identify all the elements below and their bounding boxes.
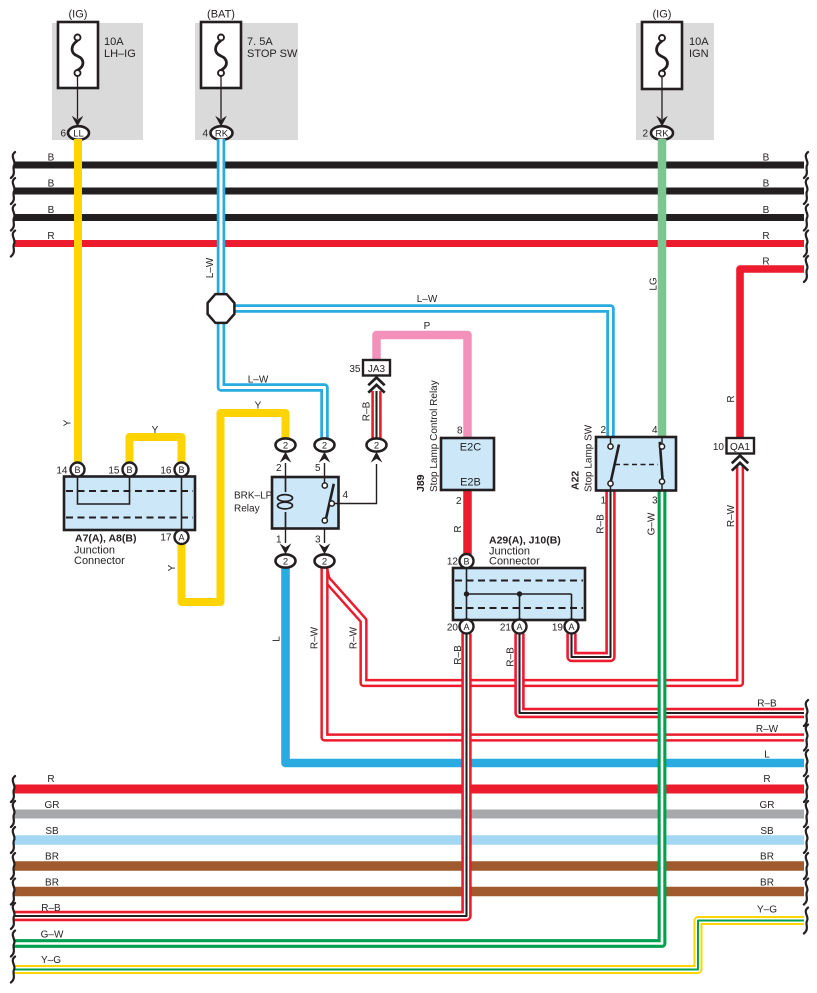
svg-text:2: 2 bbox=[283, 440, 288, 451]
svg-text:B: B bbox=[763, 179, 770, 190]
wire L from BRK-LP relay to right bus bbox=[272, 568, 809, 776]
svg-text:B: B bbox=[763, 205, 770, 216]
svg-text:Y–G: Y–G bbox=[757, 905, 777, 916]
svg-text:2: 2 bbox=[456, 496, 462, 507]
svg-text:10A: 10A bbox=[104, 36, 124, 48]
svg-text:R: R bbox=[762, 257, 769, 268]
wire BR bus 1 bbox=[11, 852, 808, 880]
wire Y from A7 pin 17 to BRK-LP relay terminal bbox=[167, 401, 286, 603]
svg-text:2: 2 bbox=[374, 440, 379, 451]
svg-text:B: B bbox=[48, 153, 55, 164]
switch A22 Stop Lamp SW bbox=[570, 424, 677, 506]
svg-text:17: 17 bbox=[160, 533, 172, 544]
svg-text:QA1: QA1 bbox=[730, 442, 750, 453]
fuse panel (BAT) 7.5A STOP SW bbox=[195, 9, 298, 141]
svg-text:LH–IG: LH–IG bbox=[104, 48, 136, 60]
svg-text:E2C: E2C bbox=[460, 442, 481, 454]
svg-text:LL: LL bbox=[73, 129, 84, 140]
svg-text:2: 2 bbox=[642, 129, 648, 140]
wire GR bus bbox=[11, 800, 808, 827]
svg-text:Stop Lamp SW: Stop Lamp SW bbox=[584, 424, 595, 492]
svg-text:GR: GR bbox=[760, 800, 775, 811]
svg-text:A7(A), A8(B): A7(A), A8(B) bbox=[75, 533, 136, 545]
svg-text:GR: GR bbox=[45, 800, 60, 811]
svg-text:3: 3 bbox=[315, 535, 321, 546]
svg-text:A: A bbox=[516, 622, 522, 632]
relay pin 4 link to R-B terminal bbox=[334, 464, 376, 504]
svg-text:(IG): (IG) bbox=[653, 9, 672, 21]
svg-text:B: B bbox=[763, 153, 770, 164]
svg-text:RK: RK bbox=[655, 129, 669, 140]
svg-text:Y: Y bbox=[63, 419, 74, 426]
svg-text:P: P bbox=[424, 321, 431, 332]
wire L-W octagon to A22 pin 2 bbox=[234, 294, 611, 437]
svg-text:B: B bbox=[48, 179, 55, 190]
wire R-B from A29 pin 20 to left bus bbox=[11, 634, 467, 930]
svg-text:12: 12 bbox=[447, 557, 459, 568]
wire R-B from JA3 chevron to BRK-LP terminal bbox=[362, 391, 377, 439]
svg-text:JA3: JA3 bbox=[368, 364, 386, 375]
svg-text:R: R bbox=[763, 774, 770, 785]
svg-text:10: 10 bbox=[713, 442, 725, 453]
svg-text:R–B: R–B bbox=[506, 647, 517, 667]
svg-text:Y: Y bbox=[152, 425, 159, 436]
svg-text:R–W: R–W bbox=[349, 626, 360, 649]
svg-text:Connector: Connector bbox=[74, 555, 125, 567]
junction QA1 pin 10 bbox=[713, 438, 754, 471]
svg-text:4: 4 bbox=[652, 425, 658, 436]
svg-text:2: 2 bbox=[600, 425, 606, 436]
svg-text:SB: SB bbox=[760, 826, 774, 837]
wire BR bus 2 bbox=[11, 878, 808, 905]
svg-text:R–B: R–B bbox=[41, 903, 61, 914]
svg-text:19: 19 bbox=[552, 623, 564, 634]
svg-text:1: 1 bbox=[276, 535, 282, 546]
svg-text:BRK–LP: BRK–LP bbox=[234, 491, 273, 502]
wire B bus 2 bbox=[11, 178, 808, 204]
svg-text:E2B: E2B bbox=[460, 477, 481, 489]
svg-text:R–B: R–B bbox=[362, 401, 373, 421]
svg-text:R: R bbox=[726, 395, 737, 402]
svg-text:R: R bbox=[453, 525, 464, 532]
relay coil bbox=[278, 477, 293, 529]
svg-text:2: 2 bbox=[322, 440, 327, 451]
wire P from JA3 to J89 pin 8 bbox=[377, 321, 468, 438]
svg-text:2: 2 bbox=[322, 556, 327, 567]
svg-text:B: B bbox=[126, 465, 132, 475]
svg-text:1: 1 bbox=[600, 496, 606, 507]
svg-text:A22: A22 bbox=[570, 471, 582, 490]
svg-text:8: 8 bbox=[457, 426, 463, 437]
svg-text:L–W: L–W bbox=[417, 294, 438, 305]
wire R-B from A29 pin 21 to right bus bbox=[506, 634, 809, 727]
relay switch blade bbox=[322, 483, 334, 523]
relay pin lines and terminals bbox=[285, 463, 287, 477]
svg-text:BR: BR bbox=[45, 878, 59, 889]
svg-text:Connector: Connector bbox=[489, 556, 540, 568]
svg-text:R: R bbox=[47, 231, 54, 242]
wire Y jumper A7 pin 15 to pin 16 bbox=[130, 425, 182, 463]
svg-text:5: 5 bbox=[315, 463, 321, 474]
svg-text:10A: 10A bbox=[689, 36, 709, 48]
svg-text:2: 2 bbox=[276, 463, 282, 474]
svg-text:A: A bbox=[568, 622, 574, 632]
svg-text:BR: BR bbox=[45, 852, 59, 863]
wire R-B from A22 pin 1 to A29 pin 19 bbox=[572, 491, 611, 658]
svg-text:(IG): (IG) bbox=[69, 9, 88, 21]
svg-text:21: 21 bbox=[500, 623, 512, 634]
svg-text:A: A bbox=[178, 533, 184, 543]
svg-text:Stop Lamp Control Relay: Stop Lamp Control Relay bbox=[429, 380, 440, 492]
svg-text:Y: Y bbox=[255, 401, 262, 412]
svg-text:35: 35 bbox=[349, 364, 361, 375]
svg-text:SB: SB bbox=[45, 826, 59, 837]
svg-text:R: R bbox=[47, 774, 54, 785]
svg-text:6: 6 bbox=[60, 129, 66, 140]
svg-text:G–W: G–W bbox=[41, 930, 64, 941]
svg-text:A: A bbox=[463, 622, 469, 632]
fuse panel (IG) 10A IGN bbox=[636, 9, 714, 141]
svg-text:L–W: L–W bbox=[248, 375, 269, 386]
svg-text:R–B: R–B bbox=[453, 645, 464, 665]
junction connector A29(A), J10(B) bbox=[447, 535, 585, 634]
svg-text:G–W: G–W bbox=[647, 512, 658, 535]
svg-text:R: R bbox=[762, 231, 769, 242]
svg-text:14: 14 bbox=[56, 466, 68, 477]
svg-text:Y: Y bbox=[167, 564, 178, 571]
wire R bus bottom full bbox=[11, 774, 808, 802]
fuse panel (IG) 10A LH-IG bbox=[52, 9, 143, 141]
svg-text:15: 15 bbox=[108, 466, 120, 477]
wire Y-G bottom with step bbox=[11, 905, 808, 983]
svg-text:B: B bbox=[48, 205, 55, 216]
svg-text:4: 4 bbox=[202, 129, 208, 140]
wire R bus top bbox=[11, 231, 808, 257]
svg-text:LG: LG bbox=[649, 277, 660, 291]
wire L-W octagon to BRK-LP relay terminal bbox=[221, 322, 325, 439]
wire R-W from BRK-LP relay to right bus bbox=[310, 568, 809, 751]
wire G-W from A22 pin 3 to left bus bbox=[11, 491, 662, 957]
relay J89 Stop Lamp Control Relay (E2C/E2B) bbox=[415, 380, 494, 507]
junction JA3 pin 35 bbox=[349, 360, 390, 393]
svg-text:2: 2 bbox=[283, 556, 288, 567]
svg-text:RK: RK bbox=[215, 129, 229, 140]
relay BRK-LP U1 bbox=[234, 438, 387, 567]
svg-text:L: L bbox=[272, 636, 283, 642]
wire L-W from fuse (BAT) to octagon node bbox=[205, 139, 221, 296]
wire R to QA1 bbox=[726, 256, 808, 438]
svg-text:R–B: R–B bbox=[596, 514, 607, 534]
svg-text:R–W: R–W bbox=[726, 504, 737, 527]
wire B bus 3 bbox=[11, 205, 808, 231]
svg-text:BR: BR bbox=[760, 852, 774, 863]
svg-text:R–W: R–W bbox=[310, 626, 321, 649]
svg-text:L–W: L–W bbox=[205, 257, 216, 278]
terminal ovals 2 bbox=[276, 438, 296, 451]
svg-text:R–B: R–B bbox=[757, 699, 777, 710]
node octagon junction bbox=[208, 294, 235, 323]
svg-text:BR: BR bbox=[760, 878, 774, 889]
svg-text:3: 3 bbox=[652, 496, 658, 507]
svg-text:B: B bbox=[74, 465, 80, 475]
svg-text:(BAT): (BAT) bbox=[207, 9, 235, 21]
wire Y from fuse LL to A7 pin 14 bbox=[63, 139, 79, 463]
svg-text:7. 5A: 7. 5A bbox=[247, 36, 273, 48]
wire B bus 1 bbox=[11, 152, 808, 178]
svg-text:4: 4 bbox=[343, 490, 349, 501]
svg-text:J89: J89 bbox=[415, 474, 427, 492]
wire SB bus bbox=[11, 826, 808, 853]
svg-text:B: B bbox=[463, 557, 469, 567]
svg-text:L: L bbox=[764, 750, 770, 761]
svg-text:Relay: Relay bbox=[234, 504, 260, 515]
svg-text:R–W: R–W bbox=[756, 724, 779, 735]
wire R from J89 pin 2 to A29 pin 12 bbox=[453, 490, 468, 555]
svg-text:STOP SW: STOP SW bbox=[247, 48, 298, 60]
svg-text:IGN: IGN bbox=[689, 48, 709, 60]
svg-text:Y–G: Y–G bbox=[41, 955, 61, 966]
svg-text:B: B bbox=[178, 465, 184, 475]
wire R-W from BRK-LP relay terminal to QA1 bbox=[325, 466, 741, 683]
junction connector A7(A), A8(B) bbox=[56, 463, 195, 568]
wire LG from fuse IGN to A22 pin 4 bbox=[649, 139, 663, 437]
svg-text:16: 16 bbox=[160, 466, 172, 477]
svg-text:20: 20 bbox=[447, 623, 459, 634]
